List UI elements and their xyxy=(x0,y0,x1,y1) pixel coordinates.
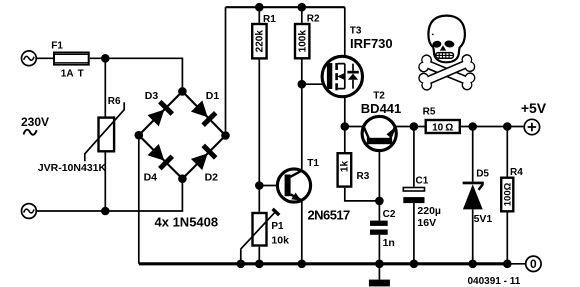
junction: P1 bottom rail node xyxy=(255,260,264,269)
ground xyxy=(369,280,390,287)
junction: top rail R1 xyxy=(255,3,264,12)
junction: R4 rail node xyxy=(503,260,512,269)
wire: R6 top lead xyxy=(104,58,106,116)
wire: R1 top lead xyxy=(258,7,260,23)
capacitor C1 xyxy=(403,188,424,204)
svg-text:10k: 10k xyxy=(271,235,289,247)
transistor T1 xyxy=(277,169,310,202)
capacitor C2 xyxy=(370,221,388,235)
wire: R5 to +5V terminal xyxy=(461,126,523,128)
svg-text:R4: R4 xyxy=(510,167,523,178)
mosfet T3 xyxy=(322,56,362,96)
wire: bridge left corner to ground rail xyxy=(138,135,140,264)
bridge arm left-bottom xyxy=(139,135,183,179)
wire: fuse to bridge top corner xyxy=(90,58,183,91)
wire: ground stub below rail xyxy=(378,264,380,280)
svg-text:220k: 220k xyxy=(255,30,266,53)
wire: T1 base wire xyxy=(259,185,284,187)
junction: T2 base node xyxy=(375,197,384,206)
+5V output terminal xyxy=(524,119,539,134)
junction: D5 top node xyxy=(468,122,477,131)
junction: D5 rail node xyxy=(468,260,477,269)
bridge arm bottom-right xyxy=(182,136,225,179)
AC source terminal bottom xyxy=(22,204,37,219)
wire: bridge right corner up to positive top rail xyxy=(225,7,227,135)
junction: C2 rail node xyxy=(375,260,384,269)
svg-text:IRF730: IRF730 xyxy=(350,36,393,51)
svg-text:100Ω: 100Ω xyxy=(502,182,513,206)
wire: ground bottom rail xyxy=(139,262,508,265)
junction: C1 top node xyxy=(410,122,419,131)
svg-text:2N6517: 2N6517 xyxy=(308,207,351,222)
wire: R4 bottom lead xyxy=(506,213,508,264)
svg-text:C2: C2 xyxy=(383,209,396,220)
wire: top AC terminal to fuse xyxy=(37,57,53,59)
svg-text:1n: 1n xyxy=(383,237,395,249)
svg-text:F1: F1 xyxy=(51,40,63,51)
svg-text:D1: D1 xyxy=(206,90,220,102)
junction: bridge left corner xyxy=(135,131,144,140)
svg-text:R1: R1 xyxy=(263,14,276,25)
junction: gate node xyxy=(298,80,307,89)
junction: bridge bottom corner xyxy=(178,174,187,183)
svg-text:040391 - 11: 040391 - 11 xyxy=(468,276,521,287)
wire: P1 top lead xyxy=(258,186,260,212)
wire: C2 top lead xyxy=(378,201,380,221)
wire: R2 top lead xyxy=(301,7,303,23)
svg-text:R3: R3 xyxy=(357,171,370,182)
svg-text:R2: R2 xyxy=(307,14,320,25)
wire: R4 top lead xyxy=(506,127,508,177)
junction: bridge right corner xyxy=(221,131,230,140)
resistor R5 xyxy=(426,120,460,133)
AC source terminal top xyxy=(22,51,37,66)
svg-text:+5V: +5V xyxy=(521,100,547,116)
svg-text:0: 0 xyxy=(530,257,537,271)
wire: C1 bottom lead xyxy=(413,203,415,264)
svg-text:P1: P1 xyxy=(271,221,284,232)
junction: R4 top node xyxy=(503,122,512,131)
wire: T3 drain lead from top rail xyxy=(344,7,346,63)
wire: R6 bottom lead xyxy=(104,153,106,212)
danger skull and crossbones xyxy=(417,16,478,93)
wire: positive top rail xyxy=(226,6,345,8)
svg-text:5V1: 5V1 xyxy=(474,213,493,225)
svg-text:D5: D5 xyxy=(476,169,489,180)
junction: T1 emitter rail node xyxy=(298,260,307,269)
resistor R3 xyxy=(338,153,352,186)
svg-text:1A T: 1A T xyxy=(61,69,84,80)
svg-text:16V: 16V xyxy=(417,217,436,229)
wire: P1 wiper drop to rail xyxy=(240,249,242,264)
svg-text:D2: D2 xyxy=(205,172,219,184)
svg-text:R6: R6 xyxy=(108,96,121,107)
wire: node to T2 collector xyxy=(345,126,364,128)
wire: T3 source lead down to node xyxy=(344,89,346,127)
diode D1 xyxy=(190,100,217,127)
wire: R3 top lead xyxy=(344,127,346,153)
junction: P1 wiper rail node xyxy=(237,260,246,269)
diode D3 xyxy=(147,100,174,127)
diode D4 xyxy=(147,143,174,170)
svg-text:4x 1N5408: 4x 1N5408 xyxy=(155,215,219,230)
svg-text:BD441: BD441 xyxy=(361,101,401,116)
resistor R4 xyxy=(501,178,513,212)
wire: P1 bottom lead xyxy=(258,247,260,264)
potentiometer P1 xyxy=(241,209,280,249)
junction: R6 bottom node xyxy=(101,207,110,216)
zener diode D5 xyxy=(463,182,484,210)
junction: T3 source node xyxy=(341,122,350,131)
transistor T2 xyxy=(362,116,396,150)
varistor R6 xyxy=(85,102,124,161)
wire: R1 bottom lead down to T1 base node xyxy=(258,60,260,186)
svg-text:R5: R5 xyxy=(423,106,436,117)
wire: T1 emitter lead to rail xyxy=(301,200,303,263)
svg-text:1k: 1k xyxy=(340,161,351,173)
resistor R2 xyxy=(295,24,309,58)
fuse F1 xyxy=(54,53,89,65)
wire: C2 bottom lead xyxy=(378,235,380,264)
wire: D5 bottom lead xyxy=(472,209,474,263)
node label 230V xyxy=(21,115,49,135)
wire: R2 bottom to gate node and T1 collector xyxy=(301,60,303,171)
junction: top rail R2 xyxy=(298,3,307,12)
wire: rail to 0 terminal xyxy=(507,263,525,265)
wire: D5 top lead xyxy=(472,127,474,182)
wire: C1 top lead xyxy=(413,127,415,187)
svg-text:C1: C1 xyxy=(416,175,429,186)
svg-text:T3: T3 xyxy=(350,26,362,37)
bridge arm left-top xyxy=(139,91,183,135)
junction: bridge top corner xyxy=(178,87,187,96)
svg-text:D3: D3 xyxy=(145,90,159,102)
wire: T2 base lead xyxy=(378,144,380,201)
svg-text:D4: D4 xyxy=(144,172,158,184)
wire: gate node to T3 gate xyxy=(302,83,327,85)
junction: C1 rail node xyxy=(410,260,419,269)
diode D2 xyxy=(190,144,217,171)
wire: T2 emitter to R5 xyxy=(395,126,425,128)
svg-text:220µ: 220µ xyxy=(417,205,441,217)
svg-text:100k: 100k xyxy=(297,30,308,53)
bridge arm top-right xyxy=(182,91,225,135)
wire: R3 bottom lead to T2 base node xyxy=(345,188,380,201)
junction: fuse output node xyxy=(101,54,110,63)
0V output terminal xyxy=(526,256,541,271)
svg-text:T2: T2 xyxy=(373,91,385,102)
svg-text:JVR-10N431K: JVR-10N431K xyxy=(38,162,107,174)
wire: bottom AC terminal to bridge bottom corner xyxy=(37,179,183,211)
svg-text:10 Ω: 10 Ω xyxy=(432,122,453,133)
resistor R1 xyxy=(252,24,266,58)
junction: T1 base node xyxy=(255,181,264,190)
svg-text:230V: 230V xyxy=(21,115,49,129)
svg-text:T1: T1 xyxy=(307,158,319,169)
